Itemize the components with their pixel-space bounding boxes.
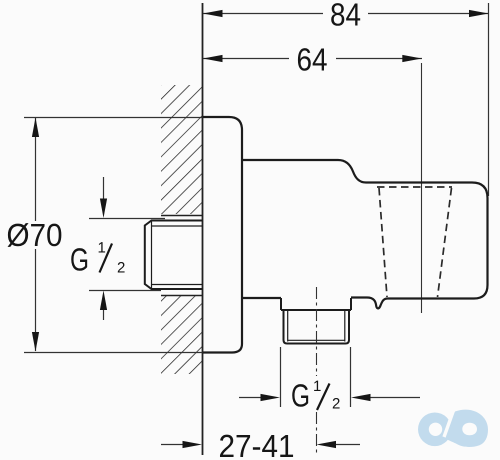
body bottom left segment bbox=[242, 297, 281, 299]
dim 84 line bbox=[203, 13, 323, 15]
body outline top bbox=[242, 160, 488, 308]
outlet collar bbox=[281, 298, 351, 310]
bottom G 1/2 text bbox=[292, 384, 308, 407]
dim 64 left arrow bbox=[203, 55, 223, 62]
dim D70 text bbox=[8, 223, 62, 247]
dim 84 left arrow bbox=[203, 10, 223, 17]
dim D70 top arrow bbox=[32, 118, 39, 138]
logo watermark bbox=[418, 410, 488, 447]
dim 64 line bbox=[203, 58, 289, 60]
holder cone dashed top rim bbox=[377, 186, 452, 188]
wall hole top line bbox=[161, 215, 203, 217]
holder cone dashed left edge bbox=[379, 188, 387, 297]
bottom G1/2 ext left bbox=[280, 347, 282, 407]
wall hatching lower bbox=[161, 296, 203, 374]
dim 64 right arrow bbox=[402, 55, 422, 62]
left thread bottom arrow bbox=[103, 307, 105, 320]
right extension line bbox=[488, 3, 490, 196]
outlet thread bbox=[284, 310, 350, 344]
left thread outline bbox=[145, 221, 203, 290]
dim 64 text bbox=[298, 48, 327, 71]
dim 27-41 left arrow bbox=[161, 444, 186, 446]
dim 27-41 right arrow bbox=[332, 444, 360, 446]
dim 27-41 text bbox=[220, 435, 293, 457]
centerline holder bbox=[421, 63, 423, 313]
dim D70 extension bottom bbox=[24, 352, 203, 354]
flange outline bbox=[203, 117, 243, 353]
wall surface / extension line bbox=[202, 3, 204, 455]
bottom G1/2 left arrow bbox=[239, 397, 264, 399]
left thread dim ext top bbox=[89, 218, 165, 220]
holder cone dashed right edge bbox=[438, 188, 452, 297]
outlet centerline bbox=[316, 287, 318, 376]
left thread top arrow bbox=[103, 177, 105, 201]
bottom G1/2 right arrow bbox=[367, 397, 420, 399]
dim D70 extension top bbox=[24, 117, 203, 119]
bottom G1/2 ext right bbox=[350, 347, 352, 407]
logo c ring bbox=[418, 413, 452, 447]
wall hatching upper bbox=[161, 85, 203, 214]
dim D70 line bbox=[35, 118, 37, 221]
dim D70 bottom arrow bbox=[32, 332, 39, 352]
dim 84 right arrow bbox=[469, 10, 489, 17]
dim 84 text bbox=[331, 3, 360, 26]
left thread inner lines bbox=[152, 221, 203, 290]
wall hole bottom line bbox=[161, 295, 203, 297]
outlet thread inner lines bbox=[288, 310, 345, 342]
logo white slit bbox=[444, 410, 454, 437]
logo d body bbox=[442, 410, 489, 447]
left G 1/2 text bbox=[71, 248, 87, 271]
left thread dim ext bottom bbox=[89, 290, 161, 292]
